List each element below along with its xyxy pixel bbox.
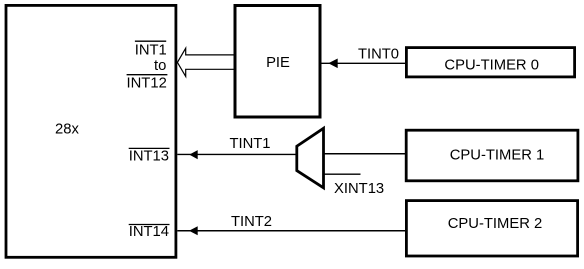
svg-text:XINT13: XINT13 (334, 181, 384, 197)
arrowhead into 28x (189, 150, 197, 159)
svg-text:CPU-TIMER 2: CPU-TIMER 2 (448, 216, 543, 232)
block CPU-TIMER 2 (406, 201, 577, 256)
label INT12 (overbar) (127, 75, 168, 92)
label INT1 (overbar) (135, 41, 167, 58)
svg-text:CPU-TIMER 0: CPU-TIMER 0 (444, 58, 539, 74)
svg-text:TINT1: TINT1 (229, 136, 270, 152)
open bus arrow PIE to 28x (INT1..INT12) (177, 48, 234, 76)
svg-text:CPU-TIMER 1: CPU-TIMER 1 (450, 148, 545, 164)
label INT14 (overbar) (129, 224, 170, 240)
svg-text:to: to (154, 58, 166, 74)
svg-text:INT1: INT1 (135, 42, 167, 58)
wire CPU-TIMER 1 to mux (324, 153, 406, 155)
svg-text:INT12: INT12 (127, 76, 167, 92)
wire INT13 (mux to 28x) (177, 153, 296, 155)
block PIE U-PIE (235, 6, 320, 118)
block CPU-TIMER 0 (406, 48, 574, 77)
svg-text:TINT2: TINT2 (231, 214, 272, 230)
wire TINT2 (CPU-TIMER 2 to 28x) (177, 230, 405, 232)
block CPU-TIMER 1 (406, 130, 578, 181)
svg-text:28x: 28x (55, 121, 79, 137)
svg-text:PIE: PIE (266, 55, 290, 71)
block 28x (6, 5, 176, 257)
mux MUX1 (INT13 source select) (297, 128, 324, 188)
svg-text:INT13: INT13 (129, 148, 169, 164)
svg-text:INT14: INT14 (129, 224, 169, 240)
wire XINT13 stub into mux (324, 173, 361, 175)
label INT13 (overbar) (129, 148, 170, 164)
wire TINT0 (CPU-TIMER 0 to PIE) (321, 62, 405, 64)
arrowhead into 28x (189, 226, 198, 235)
svg-text:TINT0: TINT0 (358, 47, 399, 63)
arrowhead into PIE (328, 59, 337, 69)
